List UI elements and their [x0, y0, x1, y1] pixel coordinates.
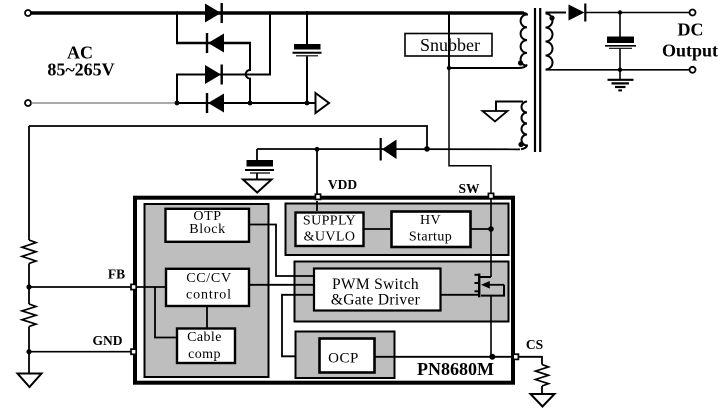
- svg-text:HV: HV: [420, 213, 441, 228]
- node FB loop junction: [424, 146, 430, 152]
- svg-text:DC: DC: [678, 20, 704, 40]
- transformer T1 secondary winding: [546, 14, 553, 70]
- node junction bottom x177: [175, 101, 180, 106]
- DC output terminal top: [690, 10, 696, 16]
- aux ground arrow symbol: [483, 111, 508, 122]
- wire SW from snubber node: [449, 68, 491, 194]
- transformer T1 primary winding: [521, 13, 527, 66]
- wire snubber drop from rail: [448, 13, 450, 68]
- Cable comp box: [177, 329, 235, 364]
- ground symbol left: [18, 374, 42, 388]
- AC input terminal top: [25, 10, 31, 16]
- wire R2 to GND node: [28, 327, 30, 374]
- wire feedback top loop: [29, 126, 427, 147]
- svg-text:CS: CS: [526, 337, 543, 352]
- diode D5 output rectifier: [569, 4, 586, 22]
- wire vertical x177 bottom: [176, 75, 178, 104]
- wire OTP to PWM: [249, 225, 314, 277]
- wire output negative: [546, 69, 691, 71]
- svg-text:SUPPLY: SUPPLY: [303, 214, 356, 229]
- wire VDD drop to pin: [316, 149, 318, 194]
- GND pin square: [131, 349, 136, 354]
- OTP Block box: [166, 209, 250, 242]
- svg-text:VDD: VDD: [328, 177, 357, 192]
- AC input terminal bottom: [25, 100, 31, 106]
- SUPPLY &UVLO box: [296, 213, 364, 247]
- resistor R1: [22, 240, 36, 264]
- wire R3 to ground: [541, 386, 543, 394]
- node GND junction: [26, 349, 31, 354]
- node output ground junction: [618, 68, 622, 72]
- label AC 85~265V: [47, 43, 114, 80]
- node output cap top: [618, 10, 622, 14]
- diode D2 bridge row2: [207, 33, 224, 53]
- IC PN8680M outer box: [135, 198, 513, 383]
- wire GND to pin: [29, 351, 131, 353]
- capacitor C1 bulk: [293, 13, 322, 103]
- wire CC/CV to PWM: [249, 284, 314, 286]
- snubber box: [405, 34, 492, 57]
- diode D6 VDD rectifier: [381, 138, 397, 161]
- wire supply to HV: [363, 228, 390, 230]
- node snubber junction: [447, 66, 451, 70]
- ground symbol CS: [531, 394, 555, 407]
- wire VDD pin into supply: [316, 201, 318, 211]
- node CS drain junction: [489, 354, 495, 360]
- PWM grey container: [295, 262, 509, 322]
- wire R1 to FB node: [28, 264, 30, 305]
- MOSFET Q1: [441, 199, 505, 357]
- left grey sub-block: [145, 204, 269, 377]
- svg-text:PN8680M: PN8680M: [417, 359, 494, 379]
- label DC Output: [662, 20, 718, 61]
- wire OCP to CS pin: [375, 356, 515, 358]
- aux polarity dot: [518, 142, 523, 147]
- wire VDD rail: [257, 148, 520, 150]
- OCP grey container: [296, 332, 395, 379]
- svg-text:control: control: [186, 288, 232, 303]
- transformer T1 auxiliary winding: [521, 102, 527, 150]
- svg-text:Snubber: Snubber: [420, 35, 480, 55]
- resistor R3: [536, 365, 549, 387]
- svg-text:Block: Block: [189, 222, 225, 237]
- svg-text:CC/CV: CC/CV: [186, 271, 232, 286]
- wire bridge row2: [176, 42, 251, 44]
- wire bottom AC line: [176, 102, 315, 104]
- node HV drain junction: [488, 226, 494, 232]
- capacitor C2 output: [605, 13, 636, 71]
- transformer core: [535, 8, 540, 152]
- svg-text:comp: comp: [188, 347, 221, 362]
- wire aux top to ground arrow: [496, 102, 523, 112]
- secondary polarity dot: [549, 15, 554, 20]
- wire output positive: [585, 12, 690, 14]
- resistor R2: [22, 304, 36, 326]
- node junction top rail x307: [305, 11, 309, 15]
- wire top AC rail: [31, 11, 524, 14]
- FB pin square: [131, 284, 136, 289]
- wire CC/CV to cable comp: [206, 306, 208, 329]
- DC output terminal bottom: [690, 67, 696, 73]
- svg-text:OCP: OCP: [328, 351, 359, 367]
- node FB junction: [26, 284, 31, 289]
- SW pin square: [488, 193, 493, 198]
- earth ground output: [608, 70, 634, 91]
- wire vertical x177 top: [176, 13, 178, 43]
- svg-text:Output: Output: [662, 41, 718, 61]
- node junction bottom x307: [305, 101, 310, 106]
- capacitor C3 VDD: [245, 149, 274, 180]
- wire HV to drain: [471, 228, 491, 230]
- svg-text:&UVLO: &UVLO: [304, 230, 356, 245]
- svg-text:Cable: Cable: [187, 330, 222, 345]
- svg-text:SW: SW: [458, 181, 480, 196]
- wire CS to resistor: [519, 357, 542, 365]
- wire FB branch to cable comp: [155, 287, 177, 338]
- wire vertical x270 to top rail: [269, 13, 271, 75]
- svg-text:PWM Switch: PWM Switch: [332, 276, 419, 293]
- wire bridge row3: [176, 74, 271, 76]
- OCP box: [320, 339, 375, 373]
- diode D3 bridge row3: [205, 65, 222, 85]
- CC/CV control box: [166, 269, 249, 306]
- diode D1 bridge top: [205, 3, 222, 23]
- primary polarity dot: [518, 60, 523, 65]
- svg-text:GND: GND: [93, 333, 123, 348]
- VDD pin square: [315, 194, 320, 199]
- diode D4 bridge bottom: [207, 93, 224, 113]
- wire PWM to OCP: [282, 295, 320, 357]
- svg-text:85~265V: 85~265V: [47, 60, 114, 80]
- PWM Switch &Gate Driver box: [314, 269, 441, 311]
- svg-text:FB: FB: [108, 267, 125, 282]
- wire bottom AC line thin segment: [31, 102, 177, 104]
- VDD cap ground arrow: [243, 180, 272, 193]
- wire left divider upper: [28, 126, 30, 240]
- primary DC- arrow symbol: [316, 93, 330, 113]
- svg-text:&Gate Driver: &Gate Driver: [331, 292, 421, 309]
- wire secondary top: [546, 12, 567, 14]
- node VDD junction: [315, 147, 320, 152]
- node junction top rail x177: [175, 11, 179, 15]
- wire FB pin to CC/CV: [137, 286, 166, 288]
- svg-text:Startup: Startup: [409, 230, 452, 245]
- wire primary bottom: [449, 65, 527, 69]
- node junction top rail x270: [268, 11, 272, 15]
- supply grey container: [286, 204, 509, 256]
- HV Startup box: [392, 212, 471, 248]
- wire FB to pin: [29, 286, 131, 288]
- CS pin square: [513, 354, 518, 359]
- wire vertical x250 with hop over row3: [246, 42, 250, 103]
- node junction bottom x250: [248, 101, 253, 106]
